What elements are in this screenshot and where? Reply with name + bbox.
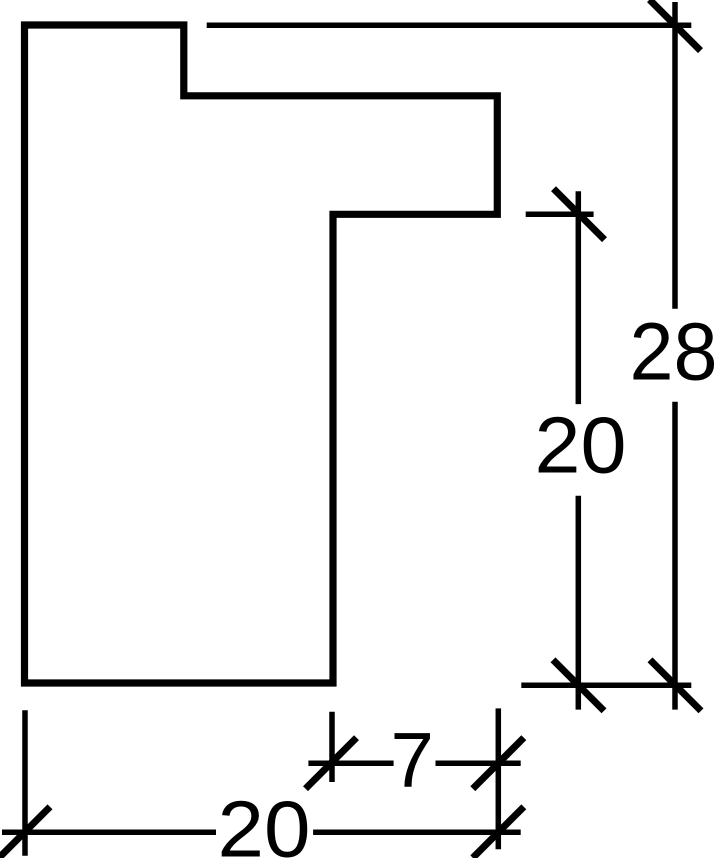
svg-text:7: 7: [391, 716, 434, 804]
svg-text:20: 20: [218, 784, 311, 858]
svg-text:28: 28: [630, 306, 718, 397]
svg-text:20: 20: [535, 400, 627, 489]
